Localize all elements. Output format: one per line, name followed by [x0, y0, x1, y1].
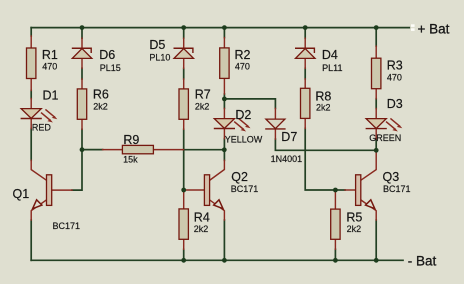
svg-text:BC171: BC171	[231, 184, 259, 194]
svg-text:PL15: PL15	[100, 63, 121, 73]
svg-text:R1: R1	[42, 48, 58, 62]
svg-text:D3: D3	[387, 97, 403, 111]
svg-text:D5: D5	[149, 38, 165, 52]
svg-text:15k: 15k	[123, 154, 138, 164]
svg-text:470: 470	[387, 72, 402, 82]
svg-text:RED: RED	[32, 123, 52, 133]
svg-text:PL11: PL11	[322, 63, 342, 73]
svg-text:R8: R8	[315, 89, 331, 103]
svg-text:BC171: BC171	[383, 184, 411, 194]
svg-text:Q3: Q3	[383, 170, 400, 184]
svg-text:2k2: 2k2	[347, 224, 362, 234]
svg-text:YELLOW: YELLOW	[225, 134, 263, 144]
svg-text:470: 470	[235, 62, 250, 72]
svg-text:2k2: 2k2	[194, 224, 209, 234]
svg-text:PL10: PL10	[149, 53, 170, 63]
svg-text:- Bat: - Bat	[408, 254, 437, 269]
svg-text:R3: R3	[387, 58, 403, 72]
svg-text:R4: R4	[194, 210, 210, 224]
svg-text:1N4001: 1N4001	[271, 154, 303, 164]
svg-text:D4: D4	[322, 48, 338, 62]
svg-text:D7: D7	[281, 130, 297, 144]
svg-text:BC171: BC171	[53, 221, 81, 231]
svg-text:Q2: Q2	[231, 170, 248, 184]
svg-text:2k2: 2k2	[195, 102, 210, 112]
svg-text:R2: R2	[235, 48, 251, 62]
svg-text:Q1: Q1	[13, 187, 30, 201]
svg-text:R5: R5	[346, 210, 362, 224]
svg-text:D6: D6	[99, 48, 115, 62]
svg-text:D2: D2	[235, 108, 251, 122]
svg-text:D1: D1	[43, 89, 59, 103]
svg-text:GREEN: GREEN	[369, 133, 401, 143]
svg-text:2k2: 2k2	[316, 103, 331, 113]
svg-text:R9: R9	[123, 133, 139, 147]
svg-text:470: 470	[42, 62, 57, 72]
svg-text:2k2: 2k2	[93, 102, 108, 112]
svg-text:R6: R6	[93, 88, 109, 102]
svg-text:R7: R7	[195, 88, 211, 102]
svg-text:+ Bat: + Bat	[418, 21, 450, 36]
